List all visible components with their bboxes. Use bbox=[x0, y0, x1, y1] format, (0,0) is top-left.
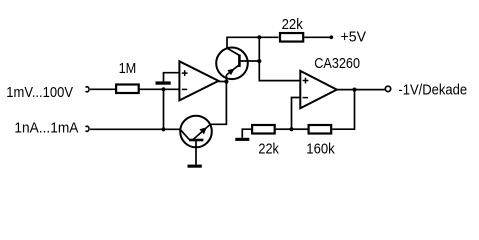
op-amp U2 CA3260 bbox=[300, 71, 337, 108]
svg-text:-1V/Dekade: -1V/Dekade bbox=[398, 82, 467, 99]
svg-text:160k: 160k bbox=[306, 140, 335, 157]
node junction J5 (Q1 base) bbox=[257, 59, 261, 63]
wire U1 non-inverting input to ground bbox=[164, 73, 180, 82]
svg-text:CA3260: CA3260 bbox=[314, 55, 360, 72]
terminal input 2 (current) bbox=[86, 126, 89, 131]
wire U1 output to node J3 bbox=[219, 81, 227, 83]
resistor R1 1M bbox=[116, 85, 139, 94]
wire rail junction down through Q1 base to U2 non-inverting input bbox=[259, 37, 300, 80]
wire row2 terminal to Q2 collector bbox=[90, 128, 180, 130]
terminal output bbox=[385, 86, 390, 91]
resistor R2 22k (top) bbox=[280, 33, 303, 42]
wire R4 up to output node J7 bbox=[332, 90, 354, 130]
node +5V supply dot bbox=[329, 35, 333, 39]
svg-text:+5V: +5V bbox=[341, 28, 367, 45]
wire U2 inverting input down to feedback node J6 bbox=[292, 98, 301, 130]
wire row1 terminal to R1 bbox=[90, 88, 115, 90]
wire U2 output to terminal bbox=[337, 89, 385, 91]
op-amp U1 bbox=[179, 61, 218, 100]
ground below Q2 bbox=[188, 165, 202, 168]
wire R2 to +5V dot bbox=[304, 36, 331, 38]
node junction J7 (output) bbox=[352, 88, 356, 92]
transistor Q2 (NPN, base grounded) bbox=[180, 116, 212, 165]
svg-text:1nA...1mA: 1nA...1mA bbox=[14, 119, 78, 136]
ground at U1 non-inverting input bbox=[156, 81, 171, 84]
node junction J3 (U1 output / Q1 emitter / Q2 emitter net) bbox=[224, 80, 228, 84]
svg-text:22k: 22k bbox=[258, 140, 279, 157]
wire R3 to node J6 bbox=[276, 128, 292, 130]
wire Q1 collector up to +5V rail bbox=[227, 37, 279, 48]
terminal input 1 (voltage) bbox=[86, 87, 89, 92]
node junction J4 on +5V rail bbox=[257, 35, 261, 39]
resistor R3 22k (bottom) bbox=[252, 125, 275, 134]
svg-text:1M: 1M bbox=[119, 60, 137, 77]
svg-text:1mV...100V: 1mV...100V bbox=[6, 84, 73, 101]
ground at R3 bbox=[235, 138, 249, 141]
resistor R4 160k bbox=[309, 125, 332, 134]
wire ground stub to R3 bbox=[242, 129, 251, 138]
wire Q2 emitter up to node J3 bbox=[210, 75, 226, 124]
node junction J6 (feedback divider) bbox=[289, 127, 293, 131]
node junction J2 on row2 bbox=[161, 127, 165, 131]
wire row1 R1 to op-amp U1 inverting input bbox=[139, 88, 180, 90]
svg-text:22k: 22k bbox=[282, 16, 304, 33]
wire junction J1 down to row2 bbox=[163, 89, 165, 129]
transistor Q1 (PNP) bbox=[216, 48, 259, 80]
node junction J1 on row1 bbox=[161, 87, 165, 91]
wire node J6 to R4 bbox=[292, 128, 308, 130]
